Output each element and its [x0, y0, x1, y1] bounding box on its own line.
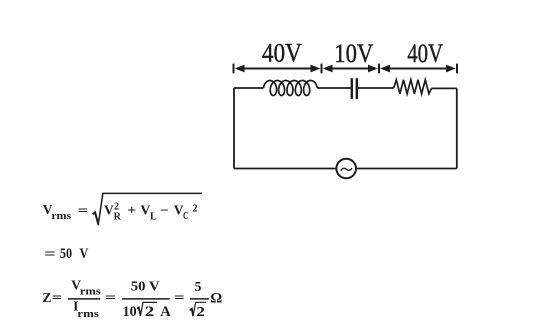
svg-text:=: =	[78, 203, 89, 218]
wire capacitor-to-resistor	[358, 87, 394, 89]
svg-text:=: =	[52, 290, 63, 305]
svg-text:rms: rms	[51, 211, 71, 222]
svg-text:40V: 40V	[407, 38, 443, 68]
svg-text:2: 2	[196, 305, 205, 320]
svg-text:=: =	[44, 246, 56, 262]
AC source	[336, 159, 356, 179]
dimension arrow VC 10V	[328, 68, 373, 70]
svg-text:Z: Z	[42, 290, 51, 305]
arrowhead left of 40V-R	[380, 65, 390, 73]
svg-text:R: R	[114, 211, 122, 222]
arrowhead right of 40V-L	[311, 65, 321, 73]
svg-text:A: A	[160, 304, 171, 320]
arrowhead right of 40V-R	[446, 65, 456, 73]
wire top-right	[432, 87, 457, 89]
svg-text:V: V	[80, 246, 89, 262]
equation line 2: = 50 V	[44, 246, 88, 262]
svg-text:L: L	[150, 211, 157, 222]
svg-text:10: 10	[123, 304, 137, 320]
dimension arrow VR 40V	[386, 68, 451, 70]
svg-text:C: C	[183, 211, 188, 222]
svg-text:5: 5	[195, 279, 202, 294]
arrowhead left of 10V	[323, 65, 333, 73]
svg-text:Ω: Ω	[210, 291, 222, 307]
svg-text:+: +	[127, 203, 136, 218]
svg-text:V: V	[104, 203, 114, 218]
dimension arrow VL 40V	[240, 68, 315, 70]
arrowhead left of 40V-L	[235, 65, 245, 73]
fraction 2 bar	[122, 298, 170, 300]
wire top-left	[234, 87, 264, 89]
svg-text:V: V	[141, 203, 151, 218]
radical in fraction 2	[137, 308, 141, 316]
radical in fraction 3	[190, 309, 193, 316]
capacitor C	[352, 78, 357, 99]
equation line 1: Vrms = sqrt(VR^2 + VL - VC ^2)	[43, 193, 202, 225]
svg-text:−: −	[160, 203, 169, 218]
fraction 3 bar	[190, 298, 209, 300]
arrowhead right of 10V	[368, 65, 378, 73]
resistor R	[394, 80, 432, 94]
inductor L	[264, 81, 318, 96]
svg-text:2: 2	[192, 203, 197, 214]
svg-text:rms: rms	[80, 287, 101, 298]
dimension tick mid-left	[321, 64, 323, 74]
fraction 1 bar	[68, 298, 100, 300]
wire left side	[233, 88, 235, 169]
svg-text:=: =	[174, 290, 185, 305]
svg-text:50: 50	[60, 246, 72, 262]
equation line 3: Z = Vrms/Irms = 50V/(10sqrt2 A) = 5/sqrt2 Ohm	[42, 277, 222, 320]
svg-text:rms: rms	[77, 309, 99, 320]
dimension tick mid-right	[378, 64, 380, 74]
svg-text:10V: 10V	[334, 38, 373, 68]
svg-text:=: =	[105, 290, 116, 305]
svg-text:40V: 40V	[262, 38, 302, 68]
dimension tick left	[233, 64, 235, 74]
svg-text:50 V: 50 V	[131, 280, 160, 295]
wire right side	[456, 88, 458, 168]
dimension tick right	[456, 64, 458, 74]
svg-text:2: 2	[145, 304, 155, 320]
wire bottom	[234, 168, 457, 170]
wire inductor-to-capacitor	[317, 87, 350, 89]
radical line 1	[93, 212, 99, 224]
